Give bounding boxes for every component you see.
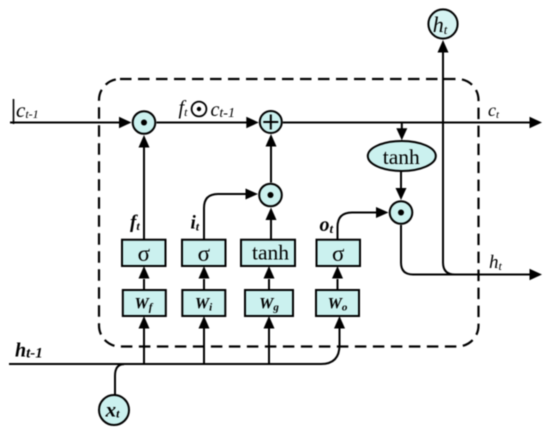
tanh ellipse xyxy=(368,141,436,171)
sigma box f xyxy=(122,240,166,266)
wire W_g to tanh box xyxy=(264,266,275,290)
wire c-line segment 1 xyxy=(10,117,132,129)
tick at c input xyxy=(13,99,15,124)
sigma box i xyxy=(182,240,226,266)
wire c-line segment 3 with output arrow xyxy=(283,117,542,129)
svg-text:tanh: tanh xyxy=(252,241,289,265)
wire h output horizontal xyxy=(413,269,542,281)
dashed cell boundary xyxy=(99,79,479,347)
W_o box xyxy=(316,290,359,316)
wire W_i to sigma i xyxy=(199,266,210,290)
wire dot3 down and right to h output xyxy=(401,225,413,275)
svg-text:σ: σ xyxy=(198,241,211,266)
wire h branch up to h_t circle xyxy=(438,40,456,275)
wire c-line segment 2 xyxy=(157,117,259,129)
wire dot2 to add xyxy=(266,134,277,183)
wire tanh box to dot2 xyxy=(266,208,277,240)
wire sigma f to dot1 xyxy=(139,135,150,240)
wire tanh to dot3 xyxy=(396,172,407,200)
wire sigma o to dot3 xyxy=(338,207,389,240)
wire h-line curve to W_o xyxy=(9,316,345,364)
node multiply dot2 xyxy=(259,184,282,207)
wire W_f to sigma f xyxy=(139,266,150,290)
wire c-line to tanh xyxy=(396,123,407,141)
node multiply dot1 xyxy=(133,111,156,134)
node multiply dot3 xyxy=(390,201,413,224)
sigma box o xyxy=(317,240,361,266)
wire sigma i to dot2 xyxy=(204,189,258,240)
W_i box xyxy=(182,290,225,316)
tanh box xyxy=(241,240,295,266)
node x_t circle xyxy=(99,395,129,425)
svg-text:σ: σ xyxy=(332,241,345,266)
wire h-line to W_i xyxy=(199,316,210,364)
wire W_o to sigma o xyxy=(332,266,343,290)
W_f box xyxy=(123,290,166,316)
node add circle xyxy=(260,111,282,133)
svg-text:σ: σ xyxy=(138,241,151,266)
wire h-line to W_g xyxy=(264,316,275,364)
wire x_t to h-line xyxy=(115,364,124,394)
svg-text:tanh: tanh xyxy=(383,145,420,169)
wire h-line to W_f xyxy=(139,316,150,364)
W_g box xyxy=(245,290,293,316)
label f_t odot c_t-1 xyxy=(179,97,235,121)
node h_t circle xyxy=(428,9,457,38)
